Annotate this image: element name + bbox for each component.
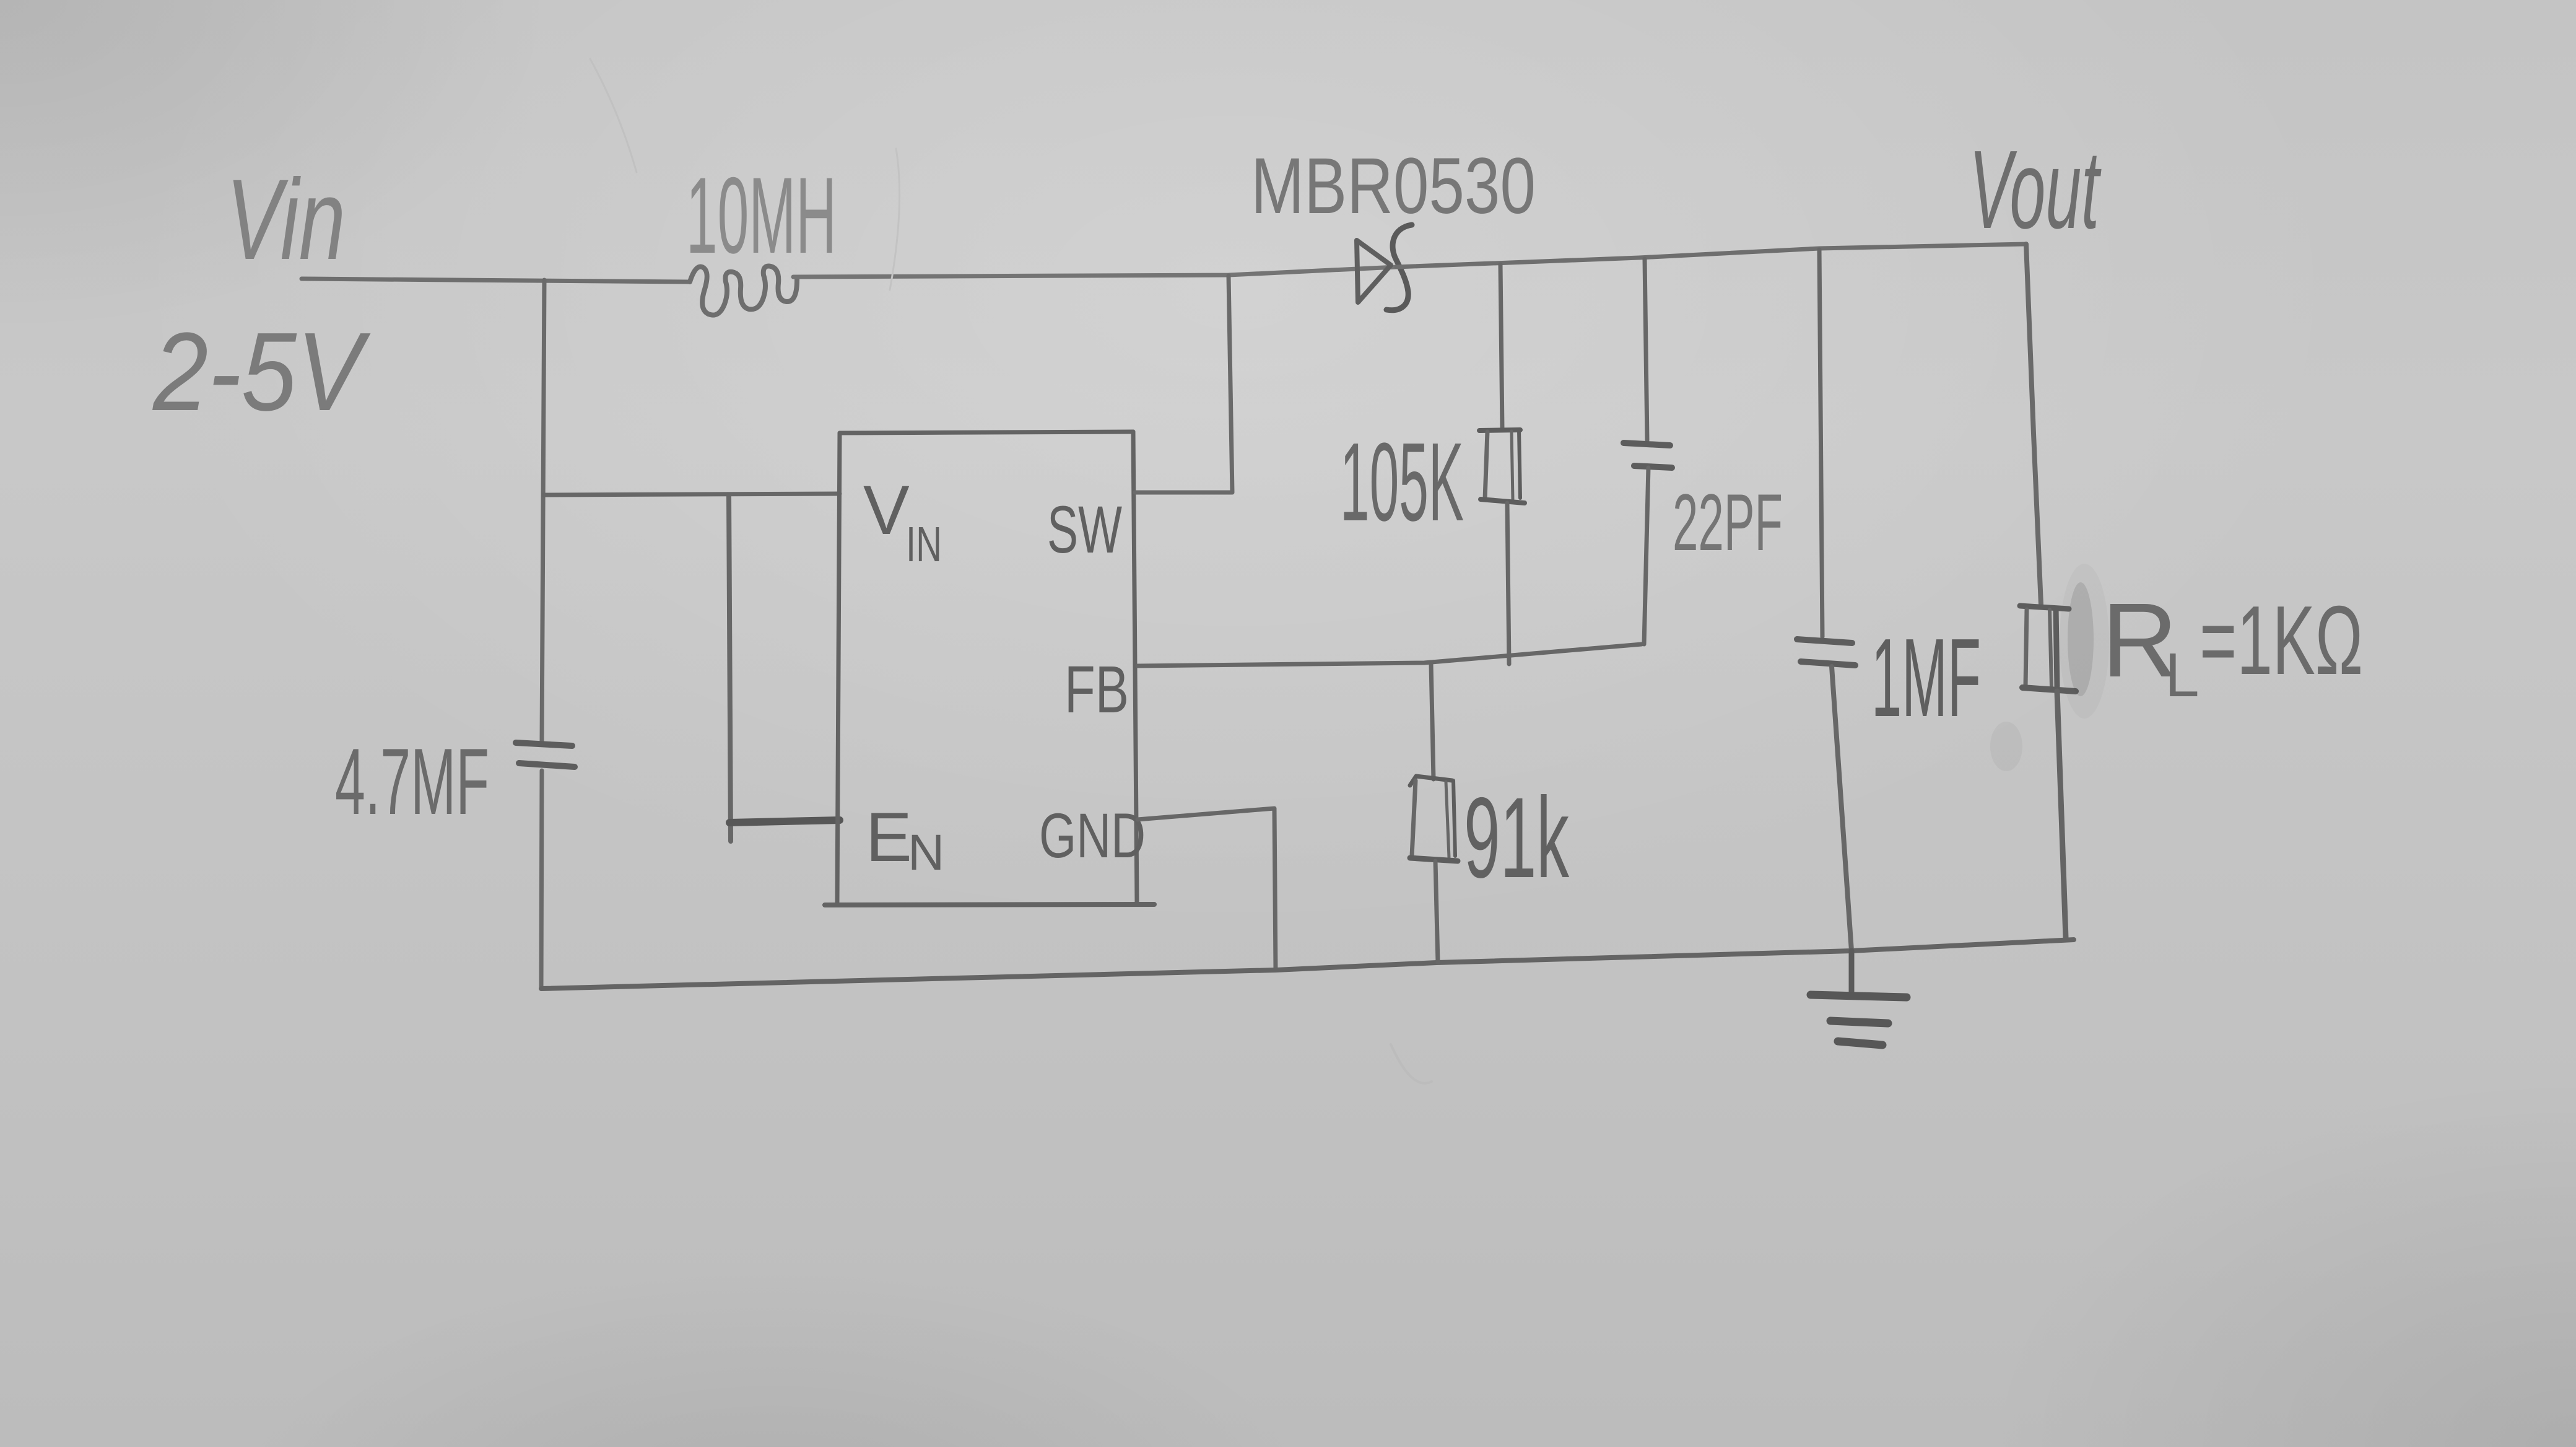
label 22PF xyxy=(1673,477,1783,567)
pin label GND xyxy=(1039,800,1146,871)
node Vout label xyxy=(1969,128,2102,252)
resistor R2 91k xyxy=(1410,664,1458,963)
pin label SW xyxy=(1047,492,1122,567)
svg-text:N: N xyxy=(908,824,944,881)
svg-text:4.7MF: 4.7MF xyxy=(335,729,489,834)
label 1MF xyxy=(1871,616,1981,740)
wire left vertical from Vin node xyxy=(542,280,544,741)
wire GND pin xyxy=(1138,808,1276,970)
svg-text:Vout: Vout xyxy=(1969,128,2102,252)
pin label VIN xyxy=(863,471,942,572)
wire Vout down to RL xyxy=(2026,244,2041,605)
ground lead xyxy=(1849,951,1855,994)
resistor RL load xyxy=(2020,606,2076,938)
svg-text:105K: 105K xyxy=(1340,420,1464,544)
svg-text:Vin: Vin xyxy=(226,156,346,284)
wire SW to top xyxy=(1135,276,1232,492)
svg-text:L: L xyxy=(2165,640,2200,710)
wire inductor to diode xyxy=(793,267,1396,277)
node Vin label xyxy=(226,156,346,284)
faint arc below 91k xyxy=(1391,1044,1432,1083)
svg-text:1MF: 1MF xyxy=(1871,616,1981,740)
svg-text:GND: GND xyxy=(1039,800,1146,871)
pin label EN xyxy=(866,798,944,881)
faint scratch center top xyxy=(890,149,900,290)
pin label FB xyxy=(1064,652,1129,727)
label 4.7MF xyxy=(335,729,489,834)
label 2-5V xyxy=(152,310,371,434)
IC U1 box xyxy=(825,432,1154,905)
capacitor C1 4.7MF xyxy=(516,743,575,767)
svg-text:MBR0530: MBR0530 xyxy=(1251,142,1536,230)
wire EN branch horizontal xyxy=(729,820,840,823)
svg-text:2-5V: 2-5V xyxy=(152,310,371,434)
svg-text:=1KΩ: =1KΩ xyxy=(2200,586,2363,695)
wire EN branch vertical xyxy=(729,495,731,841)
ground symbol xyxy=(1811,995,1907,1045)
capacitor C2 22PF branch xyxy=(1624,259,1672,644)
svg-text:V: V xyxy=(863,471,910,549)
label 105K xyxy=(1340,420,1464,544)
wire diode to Vout corner xyxy=(1396,244,2026,267)
label MBR0530 xyxy=(1251,142,1536,230)
diode D1 MBR0530 xyxy=(1357,225,1412,310)
label 10MH xyxy=(686,155,837,276)
label 91k xyxy=(1464,774,1569,902)
svg-text:91k: 91k xyxy=(1464,774,1569,902)
wire to VIN pin xyxy=(544,494,840,495)
svg-text:10MH: 10MH xyxy=(686,155,837,276)
wire Vin to inductor xyxy=(302,279,689,282)
wire FB to right xyxy=(1138,644,1642,666)
capacitor C3 1MF branch xyxy=(1797,250,1855,951)
svg-text:E: E xyxy=(866,798,912,876)
inductor L1 coil xyxy=(690,266,797,315)
resistor R1 105K branch xyxy=(1479,264,1525,664)
label RL=1KΩ xyxy=(2102,582,2363,710)
svg-text:SW: SW xyxy=(1047,492,1122,567)
svg-text:IN: IN xyxy=(906,517,942,572)
paper smudge near RL xyxy=(1990,564,2109,771)
svg-text:22PF: 22PF xyxy=(1673,477,1783,567)
svg-text:FB: FB xyxy=(1064,652,1129,727)
wire bottom rail xyxy=(541,940,2074,989)
faint scratch top left xyxy=(590,59,637,172)
